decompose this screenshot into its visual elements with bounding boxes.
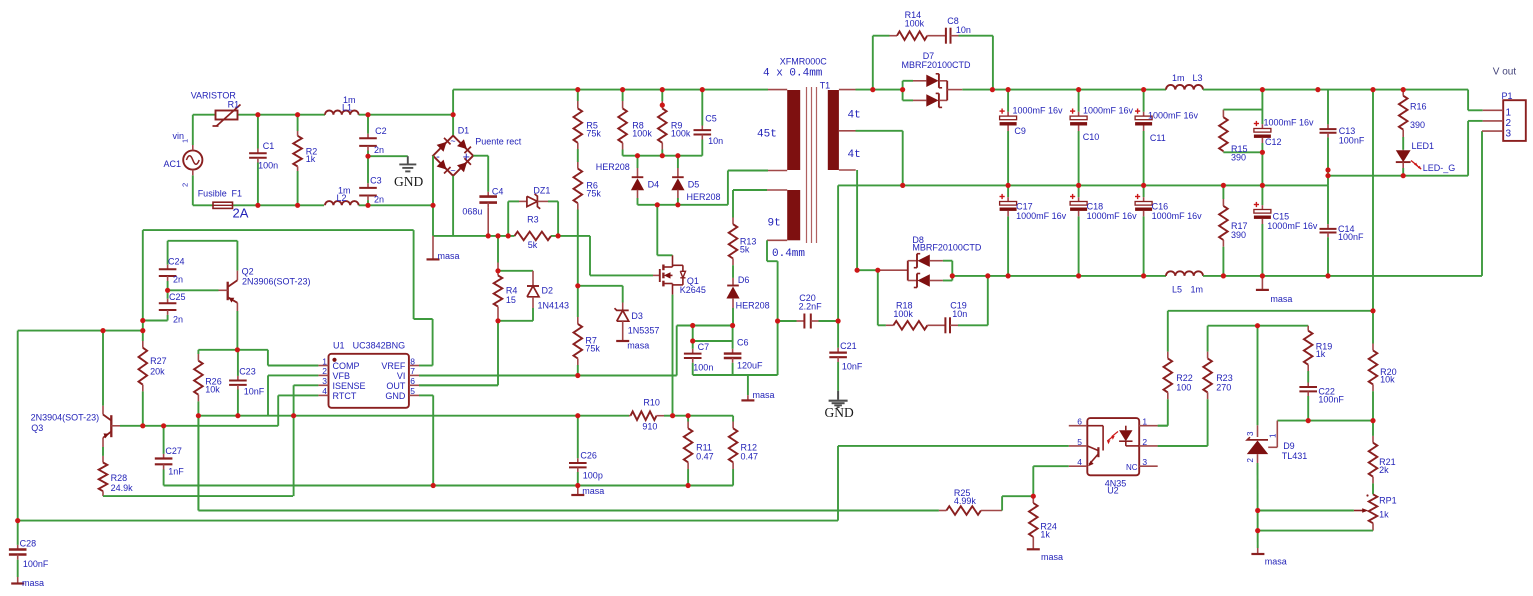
capacitor C27 bbox=[163, 426, 165, 454]
svg-text:1000mF 16v: 1000mF 16v bbox=[1087, 211, 1138, 221]
wire emitter node line bbox=[198, 349, 268, 351]
svg-text:100nF: 100nF bbox=[1318, 395, 1344, 405]
svg-text:D2: D2 bbox=[542, 286, 554, 296]
capacitor C10 bbox=[1078, 90, 1080, 112]
resistor R6 bbox=[577, 149, 579, 162]
svg-text:1000mF 16v: 1000mF 16v bbox=[1267, 221, 1318, 231]
wire D4 D5 anode bus bbox=[638, 204, 728, 206]
wire Q3 base line B bbox=[120, 425, 278, 427]
zener DZ1 parallel bbox=[507, 201, 509, 236]
svg-text:75k: 75k bbox=[586, 129, 601, 139]
svg-text:R16: R16 bbox=[1410, 101, 1427, 111]
dual diode D8 bbox=[907, 261, 909, 281]
svg-text:100: 100 bbox=[1176, 382, 1191, 392]
svg-text:10nF: 10nF bbox=[842, 361, 863, 371]
wire RP1 bottom return bbox=[1258, 530, 1373, 532]
capacitor C19 bbox=[944, 317, 946, 333]
capacitor C21 bbox=[837, 321, 839, 348]
svg-text:1N5357: 1N5357 bbox=[628, 325, 660, 335]
capacitor C18 bbox=[1078, 185, 1080, 197]
svg-text:45t: 45t bbox=[757, 129, 777, 141]
svg-text:2: 2 bbox=[181, 183, 190, 187]
capacitor C28 bbox=[17, 521, 19, 545]
svg-text:4: 4 bbox=[322, 386, 327, 396]
svg-text:K2645: K2645 bbox=[680, 285, 706, 295]
resistor R22 bbox=[1167, 311, 1169, 352]
resistor R17 bbox=[1222, 185, 1224, 199]
svg-text:390: 390 bbox=[1410, 120, 1425, 130]
svg-text:1m: 1m bbox=[1191, 284, 1204, 294]
svg-text:1: 1 bbox=[1269, 433, 1278, 438]
wire input top rail bbox=[193, 114, 216, 116]
svg-text:1: 1 bbox=[1142, 417, 1147, 427]
svg-text:C24: C24 bbox=[168, 257, 185, 267]
svg-text:1000mF 16v: 1000mF 16v bbox=[1264, 118, 1315, 128]
svg-text:P1: P1 bbox=[1502, 91, 1513, 101]
svg-text:2k: 2k bbox=[1379, 465, 1389, 475]
diode D5 bbox=[677, 156, 679, 168]
svg-text:75k: 75k bbox=[585, 344, 600, 354]
wire pin6 OUT line bbox=[419, 384, 498, 386]
shunt reference D9 TL431 bbox=[1257, 326, 1259, 426]
svg-text:1000mF 16v: 1000mF 16v bbox=[1152, 211, 1203, 221]
svg-text:1m: 1m bbox=[1172, 73, 1185, 83]
resistor R12 bbox=[732, 416, 734, 422]
svg-text:C5: C5 bbox=[705, 114, 717, 124]
svg-text:NC: NC bbox=[1126, 463, 1138, 472]
svg-text:C17: C17 bbox=[1016, 201, 1033, 211]
junction dots overlay bbox=[255, 112, 260, 117]
wire gate drive from R3 to Q1 bbox=[589, 236, 591, 276]
capacitor C7 bbox=[692, 326, 694, 349]
svg-text:20k: 20k bbox=[150, 366, 165, 376]
svg-text:3: 3 bbox=[322, 376, 327, 386]
wire Q1 drain riser bbox=[656, 205, 658, 256]
svg-text:L2: L2 bbox=[337, 193, 347, 203]
svg-text:4 x 0.4mm: 4 x 0.4mm bbox=[763, 68, 823, 80]
resistor R9 bbox=[661, 90, 663, 101]
resistor R23 bbox=[1207, 326, 1209, 352]
svg-text:2n: 2n bbox=[374, 145, 384, 155]
svg-text:910: 910 bbox=[642, 421, 657, 431]
svg-text:100nF: 100nF bbox=[23, 559, 49, 569]
svg-text:6: 6 bbox=[410, 376, 415, 386]
inductor L2 bbox=[325, 201, 359, 205]
resistor R20 bbox=[1372, 311, 1374, 344]
resistor R10 bbox=[628, 415, 630, 417]
svg-text:100n: 100n bbox=[693, 362, 713, 372]
wire opto pin5 riser to C28 line bbox=[837, 446, 839, 521]
resistor R7 bbox=[577, 286, 579, 317]
transformer secondary winding 4t 4t bbox=[828, 90, 839, 170]
capacitor C17 bbox=[1007, 185, 1009, 197]
svg-text:COMP: COMP bbox=[333, 361, 360, 371]
svg-text:8: 8 bbox=[410, 356, 415, 366]
svg-text:2: 2 bbox=[1142, 437, 1147, 447]
resistor R3 inline bbox=[515, 232, 552, 241]
wire bridge right to C4 bbox=[473, 155, 488, 157]
wire Q2 base bbox=[168, 289, 219, 291]
masa bus horizontal bbox=[433, 235, 515, 237]
svg-text:V out: V out bbox=[1493, 66, 1517, 77]
svg-text:100k: 100k bbox=[905, 19, 925, 29]
svg-text:AC1: AC1 bbox=[163, 159, 181, 169]
wire C13 C14 column mid bbox=[1327, 170, 1329, 185]
svg-text:4.99k: 4.99k bbox=[954, 496, 977, 506]
svg-text:C23: C23 bbox=[239, 366, 256, 376]
svg-text:3: 3 bbox=[1506, 129, 1512, 140]
svg-text:vin: vin bbox=[173, 131, 185, 141]
svg-text:C16: C16 bbox=[1152, 201, 1169, 211]
svg-text:masa: masa bbox=[22, 578, 44, 588]
wire C7 C6 link bbox=[693, 340, 733, 342]
resistor R13 bbox=[732, 218, 734, 225]
wire opto pin2 to R23 bbox=[1158, 445, 1208, 447]
svg-text:2.2nF: 2.2nF bbox=[799, 302, 823, 312]
capacitor C8 bbox=[945, 28, 947, 44]
capacitor C4 bbox=[487, 192, 489, 197]
wire pin2 VFB bbox=[268, 374, 318, 376]
capacitor C22 bbox=[1307, 383, 1309, 388]
svg-text:C18: C18 bbox=[1087, 201, 1104, 211]
svg-text:-: - bbox=[436, 151, 440, 163]
svg-text:1000mF 16v: 1000mF 16v bbox=[1013, 106, 1064, 116]
capacitor C5 bbox=[701, 90, 703, 126]
wire sense line A bbox=[198, 415, 629, 417]
capacitor C20 bbox=[778, 320, 797, 322]
capacitor C1 bbox=[257, 115, 259, 149]
svg-text:2N3906(SOT-23): 2N3906(SOT-23) bbox=[242, 277, 311, 287]
bridge rectifier D1 bbox=[433, 136, 473, 176]
wire bridge bottom to masa bus bbox=[452, 176, 454, 236]
svg-text:HER208: HER208 bbox=[736, 301, 770, 311]
svg-text:R1: R1 bbox=[228, 100, 240, 110]
svg-text:R10: R10 bbox=[643, 398, 660, 408]
svg-text:MBRF20100CTD: MBRF20100CTD bbox=[902, 60, 972, 70]
svg-text:0.4mm: 0.4mm bbox=[772, 248, 805, 260]
svg-text:3: 3 bbox=[1246, 431, 1255, 436]
wire C20 down to masa line bbox=[777, 321, 779, 375]
svg-text:7: 7 bbox=[410, 366, 415, 376]
svg-text:6: 6 bbox=[1077, 417, 1082, 427]
wire bus2 center tap bbox=[856, 130, 903, 132]
bus3 after L5 bbox=[1203, 275, 1482, 277]
wire RP1 wiper bbox=[1258, 510, 1354, 512]
svg-text:Q2: Q2 bbox=[242, 266, 254, 276]
svg-text:LED1: LED1 bbox=[1412, 141, 1435, 151]
svg-text:R3: R3 bbox=[527, 215, 539, 225]
wire line A right bbox=[673, 415, 734, 417]
transformer aux winding 9t bbox=[787, 190, 800, 240]
wire secondary bottom riser bbox=[856, 170, 858, 270]
svg-text:100nF: 100nF bbox=[1338, 232, 1364, 242]
diode D4 bbox=[637, 156, 639, 168]
wire R25 to R24 node bbox=[1001, 496, 1003, 510]
svg-text:U2: U2 bbox=[1107, 485, 1119, 495]
svg-text:RP1: RP1 bbox=[1379, 495, 1397, 505]
svg-text:F1: F1 bbox=[232, 189, 243, 199]
svg-text:masa: masa bbox=[627, 341, 649, 351]
connector P1 bbox=[1503, 100, 1526, 141]
svg-text:LED-_G: LED-_G bbox=[1423, 163, 1456, 173]
svg-text:10n: 10n bbox=[952, 309, 967, 319]
earth ground GND bbox=[407, 156, 409, 164]
resistor R11 bbox=[687, 416, 689, 422]
wire vcc node line bbox=[676, 326, 678, 376]
svg-text:10k: 10k bbox=[1380, 374, 1395, 384]
wire bridge top riser and top rail to transformer bbox=[452, 90, 454, 136]
wire input bottom rail bbox=[193, 204, 213, 206]
svg-text:masa: masa bbox=[438, 251, 460, 261]
svg-text:VI: VI bbox=[397, 371, 406, 381]
wire bridge left to masa bus bbox=[432, 156, 434, 236]
svg-text:C12: C12 bbox=[1265, 137, 1282, 147]
wire ref line R23 R19 bbox=[1208, 325, 1309, 327]
masa symbol D9 bbox=[1251, 553, 1264, 555]
transformer core bbox=[806, 87, 808, 243]
capacitor C24 bbox=[167, 241, 169, 265]
svg-text:390: 390 bbox=[1231, 152, 1246, 162]
svg-text:100nF: 100nF bbox=[1339, 135, 1365, 145]
svg-text:2: 2 bbox=[1506, 118, 1512, 129]
svg-text:R28: R28 bbox=[111, 473, 128, 483]
capacitor C25 bbox=[167, 290, 169, 298]
ground line left bbox=[164, 485, 734, 487]
svg-text:4: 4 bbox=[1077, 457, 1082, 467]
svg-text:1k: 1k bbox=[1379, 509, 1389, 519]
optocoupler U2 4N35 bbox=[1087, 418, 1139, 475]
svg-text:5: 5 bbox=[410, 386, 415, 396]
svg-text:C27: C27 bbox=[165, 446, 182, 456]
wire 9t top to R13 bbox=[733, 189, 767, 191]
svg-text:T1: T1 bbox=[820, 81, 831, 91]
svg-text:270: 270 bbox=[1216, 382, 1231, 392]
svg-text:masa: masa bbox=[1041, 552, 1063, 562]
svg-text:C4: C4 bbox=[492, 186, 504, 196]
svg-text:10nF: 10nF bbox=[244, 387, 265, 397]
snubber loop R14 C8 bbox=[872, 36, 874, 90]
resistor R27 bbox=[142, 341, 144, 348]
resistor R18 bbox=[893, 321, 927, 330]
svg-text:RTCT: RTCT bbox=[333, 391, 357, 401]
svg-text:10n: 10n bbox=[956, 25, 971, 35]
resistor R19 bbox=[1307, 326, 1309, 331]
svg-text:VREF: VREF bbox=[381, 361, 406, 371]
svg-text:~: ~ bbox=[450, 166, 455, 176]
svg-text:GND: GND bbox=[394, 174, 423, 189]
feedback column from rail bbox=[1372, 90, 1374, 311]
svg-text:5: 5 bbox=[1077, 437, 1082, 447]
snubber R18 C19 bbox=[877, 270, 879, 325]
svg-text:2n: 2n bbox=[173, 315, 183, 325]
svg-text:2n: 2n bbox=[173, 275, 183, 285]
capacitor C13 bbox=[1327, 90, 1329, 125]
resistor R15 bbox=[1222, 110, 1224, 118]
masa symbol R24 bbox=[1027, 548, 1040, 550]
wire Q2 loop left bbox=[142, 230, 144, 341]
wire P1 pin3 riser bbox=[1481, 131, 1483, 276]
positive rail after L3 bbox=[1203, 89, 1468, 91]
resistor R26 bbox=[197, 350, 199, 354]
svg-text:Fusible: Fusible bbox=[198, 189, 227, 199]
svg-text:HER208: HER208 bbox=[687, 192, 721, 202]
svg-text:10k: 10k bbox=[205, 385, 220, 395]
svg-text:GND: GND bbox=[385, 391, 406, 401]
svg-text:4t: 4t bbox=[848, 110, 861, 122]
svg-text:U1: U1 bbox=[333, 341, 345, 351]
positive rail after D7 bbox=[992, 89, 1166, 91]
diode D6 bbox=[732, 278, 734, 285]
LED LED1 bbox=[1402, 149, 1404, 152]
svg-text:C7: C7 bbox=[698, 342, 710, 352]
svg-text:1: 1 bbox=[1506, 108, 1512, 119]
wire node R8 R9 C5 bbox=[623, 155, 703, 157]
svg-text:HER208: HER208 bbox=[596, 162, 630, 172]
svg-text:120uF: 120uF bbox=[737, 361, 763, 371]
svg-text:2: 2 bbox=[322, 366, 327, 376]
svg-text:3: 3 bbox=[1142, 457, 1147, 467]
svg-text:C10: C10 bbox=[1083, 132, 1100, 142]
svg-text:24.9k: 24.9k bbox=[111, 483, 134, 493]
svg-text:masa: masa bbox=[582, 486, 604, 496]
resistor R8 bbox=[622, 90, 624, 101]
capacitor C14 bbox=[1327, 185, 1329, 224]
wire Q3 collector riser bbox=[102, 331, 104, 406]
resistor R14 bbox=[897, 31, 927, 40]
wire RTCT node riser bbox=[197, 416, 199, 511]
wire R26 column down bbox=[197, 416, 199, 511]
svg-text:Q3: Q3 bbox=[31, 423, 43, 433]
masa symbol C6 C7 bbox=[747, 375, 749, 395]
capacitor C11 bbox=[1143, 90, 1145, 112]
svg-text:MBRF20100CTD: MBRF20100CTD bbox=[912, 243, 982, 253]
wire secondary top rail bbox=[856, 89, 903, 91]
capacitor C12 bbox=[1261, 90, 1263, 125]
svg-text:ISENSE: ISENSE bbox=[333, 381, 366, 391]
wire to earth ground bbox=[368, 155, 408, 157]
wire opto pin1 to R22 bbox=[1158, 425, 1168, 427]
wire C25 bottom to left rail bbox=[143, 320, 168, 322]
diode D2 bbox=[498, 270, 533, 272]
resistor R24 bbox=[1032, 496, 1034, 503]
wire 9t bottom to C20 bbox=[766, 240, 768, 261]
svg-text:VFB: VFB bbox=[333, 371, 351, 381]
svg-text:OUT: OUT bbox=[386, 381, 406, 391]
svg-text:L5: L5 bbox=[1172, 284, 1182, 294]
svg-text:+: + bbox=[463, 150, 470, 164]
wire opto pin4 corner bbox=[1033, 465, 1069, 467]
wire D8 input node bbox=[857, 269, 878, 271]
svg-text:1nF: 1nF bbox=[168, 467, 184, 477]
svg-text:C6: C6 bbox=[737, 338, 749, 348]
diode D3 zener bbox=[578, 285, 623, 287]
svg-text:C1: C1 bbox=[263, 141, 275, 151]
masa symbol bridge bbox=[432, 236, 434, 259]
wire LED cathode line bbox=[1328, 175, 1468, 177]
dual diode D7 bbox=[902, 81, 904, 101]
svg-text:masa: masa bbox=[1270, 294, 1292, 304]
svg-text:C26: C26 bbox=[580, 451, 597, 461]
svg-text:D4: D4 bbox=[648, 180, 660, 190]
resistor R25 bbox=[198, 510, 939, 512]
svg-text:1k: 1k bbox=[1316, 349, 1326, 359]
wire pin3 ISENSE bbox=[294, 384, 319, 386]
svg-text:100k: 100k bbox=[893, 309, 913, 319]
svg-text:D5: D5 bbox=[688, 180, 700, 190]
mosfet Q1 bbox=[653, 274, 660, 276]
svg-text:2A: 2A bbox=[233, 205, 249, 220]
resistor R16 bbox=[1402, 90, 1404, 96]
wire C24 top to Q2 collector bbox=[168, 240, 238, 242]
svg-text:15: 15 bbox=[506, 295, 516, 305]
svg-text:R23: R23 bbox=[1216, 373, 1233, 383]
svg-text:C15: C15 bbox=[1273, 212, 1290, 222]
svg-text:masa: masa bbox=[753, 390, 775, 400]
resistor R5 bbox=[577, 90, 579, 101]
svg-text:L3: L3 bbox=[1193, 73, 1203, 83]
svg-text:1000mF 16v: 1000mF 16v bbox=[1016, 211, 1067, 221]
svg-text:C28: C28 bbox=[20, 538, 37, 548]
svg-text:C21: C21 bbox=[840, 341, 857, 351]
wire pin8 VREF riser bbox=[419, 365, 433, 367]
wire pin7 VI line bbox=[419, 375, 677, 377]
svg-text:390: 390 bbox=[1231, 230, 1246, 240]
IC U1 UC3842 bbox=[329, 354, 409, 408]
wire R28 to sense riser bbox=[103, 495, 293, 497]
svg-text:UC3842BNG: UC3842BNG bbox=[353, 341, 406, 351]
capacitor C23 bbox=[237, 350, 239, 376]
capacitor C16 bbox=[1143, 185, 1145, 197]
wire left net line bbox=[18, 330, 143, 332]
capacitor C26 bbox=[577, 416, 579, 459]
wire left column to C28 bbox=[17, 331, 19, 521]
inductor L3 bbox=[1166, 85, 1203, 90]
svg-text:100k: 100k bbox=[671, 129, 691, 139]
svg-text:~: ~ bbox=[450, 136, 455, 146]
wire R4 D2 bottom node to OUT bbox=[498, 320, 533, 322]
resistor R28 bbox=[102, 447, 104, 456]
fuse F1 bbox=[213, 202, 233, 208]
svg-text:4t: 4t bbox=[848, 149, 861, 161]
wire feedback top line bbox=[1168, 310, 1373, 312]
svg-text:1000mF 16v: 1000mF 16v bbox=[1083, 106, 1134, 116]
resistor R2 bbox=[297, 115, 299, 131]
svg-text:L1: L1 bbox=[342, 102, 352, 112]
AC source AC1 bbox=[183, 150, 202, 169]
masa symbol D3 bbox=[622, 331, 624, 341]
masa symbol C15 bbox=[1261, 276, 1263, 290]
svg-text:2N3904(SOT-23): 2N3904(SOT-23) bbox=[31, 413, 100, 423]
potentiometer RP1 bbox=[1369, 494, 1378, 523]
wire pin4 RTCT bbox=[278, 394, 318, 396]
svg-text:1000mF 16v: 1000mF 16v bbox=[1148, 111, 1199, 121]
svg-text:XFMR000C: XFMR000C bbox=[780, 56, 828, 66]
svg-text:5k: 5k bbox=[740, 244, 750, 254]
capacitor C6 bbox=[732, 326, 734, 349]
negative rail after D8 bus3 bbox=[952, 275, 1166, 277]
wire AC source column bbox=[192, 115, 194, 145]
capacitor C15 bbox=[1261, 185, 1263, 205]
svg-text:10n: 10n bbox=[708, 136, 723, 146]
svg-text:1k: 1k bbox=[1040, 530, 1050, 540]
svg-text:1N4143: 1N4143 bbox=[538, 301, 570, 311]
svg-text:D9: D9 bbox=[1283, 441, 1295, 451]
inductor L5 bbox=[1166, 271, 1203, 276]
svg-text:Puente rect: Puente rect bbox=[475, 137, 522, 147]
svg-text:C3: C3 bbox=[370, 175, 382, 185]
resistor R4 bbox=[497, 236, 499, 263]
masa symbol C28 bbox=[11, 582, 24, 584]
